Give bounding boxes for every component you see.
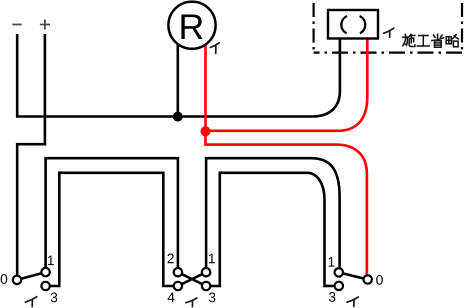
left switch terminal 1 — [41, 268, 49, 276]
wire plus-to-switch0 — [17, 34, 45, 275]
kanji 省 — [432, 34, 444, 47]
middle switch terminal 3 — [202, 282, 210, 290]
label イ right switch — [347, 297, 358, 307]
label 0 — [1, 274, 8, 284]
label 2 — [168, 254, 174, 264]
minus terminal — [12, 24, 21, 26]
4-way cross wire t4-t1 — [178, 272, 206, 286]
wire lamp black lead — [177, 45, 180, 117]
left switch terminal 3 — [41, 282, 49, 290]
kanji 略 — [446, 34, 458, 46]
right switch terminal 0 — [364, 275, 372, 283]
wire minus-to-box horizontal — [17, 34, 340, 117]
dash-dot border left — [313, 3, 315, 53]
paren left — [341, 16, 347, 33]
lamp R letter — [181, 14, 202, 39]
wire lamp red lead to right switch t0 — [206, 45, 367, 275]
wire red junction to box — [206, 39, 368, 131]
label 3 — [51, 293, 58, 303]
wire middle switch t1 to right switch t1 — [206, 158, 340, 267]
label 3 — [329, 292, 336, 302]
dash-dot boundary 施工省略 area — [314, 3, 462, 53]
label イ box — [384, 28, 394, 37]
4-way cross wire t2-t3 — [178, 272, 206, 286]
lamp R circle — [168, 2, 215, 49]
wire red net — [206, 39, 368, 274]
dash-dot border bottom — [314, 51, 462, 53]
label 1 — [209, 254, 215, 263]
label イ lamp — [210, 43, 219, 54]
wire left switch t1 to middle switch t2 — [46, 158, 178, 267]
middle switch terminal 1 — [202, 268, 210, 276]
label 3 — [209, 293, 216, 303]
dash-dot border right — [461, 3, 463, 53]
label 0 — [376, 275, 383, 285]
middle switch terminal 2 — [174, 268, 182, 276]
label 1 — [329, 257, 335, 266]
label イ middle switch — [186, 298, 197, 307]
label 4 — [168, 293, 175, 302]
kanji 施 — [403, 34, 415, 46]
switch blade right — [339, 272, 368, 279]
receptacle box (omitted) — [328, 10, 378, 39]
left switch terminal 0 — [13, 276, 21, 284]
label イ left switch — [25, 297, 36, 307]
node red junction — [201, 126, 211, 136]
right switch terminal 1 — [335, 268, 343, 276]
paren right — [360, 16, 366, 33]
wire - main black net — [17, 34, 340, 286]
node black junction — [173, 112, 183, 122]
right switch terminal 3 — [335, 282, 343, 290]
wire left switch t3 to middle switch t4 — [50, 173, 174, 286]
switch blade left — [17, 272, 46, 280]
label 施工省略 — [403, 34, 459, 47]
wire middle switch t3 to right switch t3 — [211, 173, 335, 286]
kanji 工 — [417, 36, 429, 47]
label 1 — [48, 256, 54, 265]
plus terminal — [40, 20, 50, 30]
middle switch terminal 4 — [174, 282, 182, 290]
